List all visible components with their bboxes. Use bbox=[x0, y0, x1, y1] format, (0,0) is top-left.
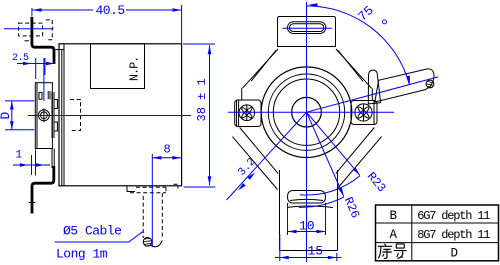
clamp screw on plate bbox=[38, 109, 49, 123]
cable exit step under body bbox=[127, 186, 135, 192]
3.2 chamfer dim bbox=[227, 112, 307, 200]
svg-text:40.5: 40.5 bbox=[96, 3, 125, 18]
svg-text:1: 1 bbox=[16, 150, 23, 162]
cable gland hidden lines (dashed) bbox=[130, 184, 178, 192]
right ear screw bbox=[355, 104, 372, 121]
horizontal centerline bbox=[228, 111, 394, 113]
chamfer flats (4 corners) bbox=[232, 49, 381, 190]
N.P. label plate bbox=[91, 44, 145, 89]
dim 2.5 bbox=[12, 53, 55, 79]
svg-text:R23: R23 bbox=[364, 170, 389, 196]
cable end hook curve bbox=[151, 241, 163, 247]
mounting bracket arm (thick, top) bbox=[32, 17, 54, 64]
bore circle bbox=[292, 97, 322, 127]
cable end hatched circle bbox=[143, 238, 152, 247]
svg-text:Long 1m: Long 1m bbox=[56, 247, 108, 262]
left ear bbox=[235, 100, 261, 127]
svg-text:6G7 depth 11: 6G7 depth 11 bbox=[417, 209, 490, 223]
hidden bore (dashed) bbox=[70, 100, 81, 131]
phantom mating bracket (dashed box left) bbox=[19, 23, 43, 36]
dim 40.5 bbox=[32, 3, 182, 43]
left ear screw bbox=[239, 105, 255, 121]
bracket plate (front plate with screw) bbox=[35, 83, 52, 149]
dim D (bore) bbox=[0, 101, 34, 130]
svg-text:D: D bbox=[0, 112, 13, 120]
shaft collar protruding at left bbox=[52, 92, 57, 138]
bracket centerline (blue) bbox=[4, 28, 54, 30]
cable (dashed outline, hanging down) bbox=[143, 193, 162, 239]
top slot centerline bbox=[283, 27, 332, 29]
dim 8 (cable position) bbox=[152, 143, 181, 248]
cable callout: leader + text bbox=[55, 224, 145, 262]
svg-text:B: B bbox=[390, 209, 398, 223]
dim 38 +/- 1 bbox=[183, 44, 215, 187]
dim 10 (slot width) bbox=[288, 203, 326, 235]
cable axis line (15 deg) bbox=[307, 77, 439, 112]
svg-text:2.5: 2.5 bbox=[12, 53, 29, 64]
cable gland clamp (front view) bbox=[368, 70, 380, 104]
序号 (serial no.) hand-drawn strokes bbox=[378, 244, 407, 259]
svg-text:Ø5 Cable: Ø5 Cable bbox=[63, 224, 121, 239]
svg-text:15: 15 bbox=[308, 244, 324, 259]
cable (front view cylinder) bbox=[375, 69, 434, 102]
svg-text:N.P.: N.P. bbox=[129, 57, 142, 81]
R23 radius line + arc bbox=[300, 112, 389, 195]
svg-text:75: 75 bbox=[355, 3, 377, 25]
bracket arm tick top bbox=[25, 40, 30, 42]
bottom tab bbox=[280, 170, 338, 251]
svg-text:3.2: 3.2 bbox=[236, 156, 258, 179]
side view main axis centerline bbox=[28, 115, 191, 117]
R26 radius line + arc bbox=[299, 112, 362, 220]
svg-text:R26: R26 bbox=[341, 195, 362, 220]
dim 1 bbox=[13, 150, 50, 176]
top tab bbox=[278, 17, 336, 47]
svg-text:8G7 depth 11: 8G7 depth 11 bbox=[417, 228, 490, 242]
dim 15 (tab width) bbox=[275, 234, 342, 261]
phantom mating bracket slot (dashed box right) bbox=[46, 20, 53, 40]
svg-text:A: A bbox=[390, 228, 398, 242]
bracket foot (thick, bottom) bbox=[51, 149, 53, 169]
body circles bbox=[261, 67, 352, 158]
svg-text:10: 10 bbox=[299, 219, 315, 234]
svg-text:38 ± 1: 38 ± 1 bbox=[195, 78, 209, 121]
encoder body outline (side view) bbox=[56, 44, 182, 186]
right ear bbox=[351, 101, 377, 125]
75 degree arc bbox=[307, 3, 410, 85]
screw centerline (blue vertical) bbox=[43, 58, 45, 101]
bracket foot tick bbox=[29, 202, 36, 204]
cable end hatched wire bbox=[426, 80, 434, 88]
vertical centerline bbox=[306, 2, 308, 262]
svg-text:D: D bbox=[451, 247, 459, 261]
svg-text:8: 8 bbox=[164, 143, 171, 157]
